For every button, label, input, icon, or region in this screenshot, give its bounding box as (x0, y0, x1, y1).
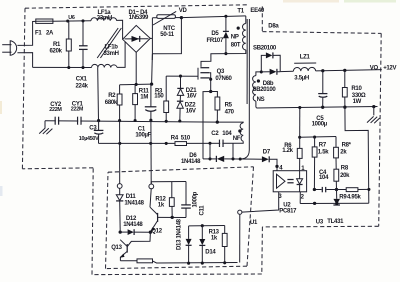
diode D6 1N4148 (215, 156, 217, 162)
svg-text:104: 104 (319, 175, 329, 181)
inductor LF1a (91, 18, 117, 21)
svg-text:1N4148: 1N4148 (181, 159, 201, 165)
svg-text:1000p: 1000p (193, 191, 199, 207)
diode D13 1N4148 (188, 226, 190, 239)
svg-text:1000µ: 1000µ (312, 122, 328, 128)
svg-text:NF: NF (233, 136, 241, 142)
shunt regulator U3 TL431 (336, 190, 338, 199)
wire bridge bottom to VD+ node row (135, 52, 137, 84)
secondary common rail (257, 107, 378, 109)
svg-text:20k: 20k (340, 173, 350, 179)
vertical C2 right to D6 line (232, 143, 234, 159)
svg-text:TL431: TL431 (327, 219, 344, 225)
wire VD rail to transformer (181, 16, 245, 18)
svg-text:1M: 1M (140, 95, 148, 101)
wire primary mid bus with CY caps (45, 121, 217, 122)
wire VD+ row (R2 R11 C1 tops) (120, 83, 152, 86)
svg-text:1N5399: 1N5399 (129, 15, 149, 21)
svg-text:C3: C3 (89, 126, 97, 132)
svg-text:T1: T1 (237, 8, 244, 14)
svg-text:PC817: PC817 (279, 209, 297, 215)
faint page-edge mark left (0, 101, 2, 114)
svg-text:10µ450V: 10µ450V (79, 136, 99, 142)
svg-text:3: 3 (278, 194, 282, 200)
svg-text:07N60: 07N60 (215, 76, 232, 82)
zener DZ2 16V (177, 100, 183, 102)
terminal circle node 2 (150, 120, 152, 184)
svg-text:Q3: Q3 (217, 69, 225, 75)
fuse F1 (36, 19, 53, 23)
resistor R4 510 (175, 142, 187, 146)
svg-text:Q13: Q13 (111, 245, 122, 251)
wire C4/R9 row (314, 189, 321, 191)
wire LF1a to bridge (117, 20, 123, 39)
svg-text:EE40: EE40 (250, 8, 264, 14)
wire D6 feedback line (203, 158, 216, 160)
svg-text:510: 510 (181, 136, 191, 142)
svg-text:104: 104 (222, 131, 232, 137)
svg-text:1W: 1W (353, 99, 362, 105)
transformer T1 primary NP (245, 16, 247, 24)
inner U1 control-block dashed box (108, 167, 254, 172)
svg-text:R1: R1 (53, 42, 61, 48)
resistor R10 330ohm 1W (344, 70, 346, 87)
resistor R8+ 2k (335, 137, 337, 148)
capacitor CY1 (77, 117, 79, 125)
zener DZ1 16V (179, 75, 182, 78)
resistor R5 470 (211, 92, 218, 98)
svg-text:680k: 680k (105, 100, 118, 106)
inductor LZ1 3.5uH (294, 62, 316, 64)
inductor LF1b (92, 64, 118, 67)
svg-text:C2: C2 (211, 131, 219, 137)
capacitor C4 104 (321, 187, 323, 192)
diode D14 (201, 226, 203, 239)
svg-text:FR107: FR107 (207, 38, 224, 44)
svg-text:U1: U1 (250, 220, 258, 226)
svg-text:16V: 16V (186, 108, 196, 114)
svg-text:1N4148: 1N4148 (123, 222, 143, 228)
transistor Q13 (120, 240, 127, 247)
svg-text:Q12: Q12 (151, 229, 162, 235)
svg-text:620k: 620k (50, 48, 63, 54)
wire VD column down to C1 top node (151, 54, 154, 84)
transformer core (246, 19, 248, 104)
svg-text:2A: 2A (46, 31, 54, 37)
terminal circle node 3 (238, 210, 242, 214)
ground secondary (373, 107, 375, 116)
capacitor C1 100uF (150, 84, 152, 107)
NTC column and loop (151, 18, 153, 54)
resistor R11 (134, 84, 136, 93)
resistor R8 20k (334, 169, 339, 181)
svg-text:U3: U3 (316, 220, 324, 226)
svg-text:D5: D5 (211, 31, 219, 37)
diode D7 (262, 156, 269, 162)
capacitor C5 1000u (322, 71, 324, 94)
svg-text:NS: NS (257, 97, 265, 103)
diode D5 FR107 (225, 16, 227, 31)
wire plug to bottom rail (17, 53, 32, 68)
wire source sense line down to D6 line (203, 92, 211, 159)
resistor R13 1k (224, 226, 226, 234)
bridge rectifier D1~D4 (123, 25, 151, 52)
wire core-side column down to D6 line (241, 104, 250, 159)
svg-text:80T: 80T (231, 43, 241, 49)
transformer feedback winding NF (240, 123, 243, 141)
svg-text:D8a: D8a (268, 23, 279, 29)
wire fuse to LF1a (53, 20, 91, 23)
svg-text:1N4148: 1N4148 (124, 201, 144, 207)
wire plug to fuse (17, 21, 36, 45)
op-amp U2 PC817 optocoupler (273, 171, 306, 192)
svg-text:SB20100: SB20100 (253, 87, 277, 93)
wire right column from R10 node down (345, 107, 369, 203)
transistor Q3 07N60 MOSFET (166, 75, 198, 77)
faint highlighted text remnants top edge (283, 0, 339, 3)
wire bottom rail down to C3 (97, 68, 100, 121)
wire primary lower bus (99, 142, 176, 144)
outer primary-side dashed border (25, 5, 248, 8)
svg-text:F1: F1 (35, 31, 42, 37)
svg-text:C11: C11 (200, 205, 206, 216)
svg-text:1k: 1k (211, 236, 218, 242)
svg-text:D13 1N4148: D13 1N4148 (177, 218, 183, 250)
svg-text:R5: R5 (225, 103, 233, 109)
svg-text:SB20100: SB20100 (253, 46, 277, 52)
svg-text:150: 150 (154, 93, 164, 99)
terminal circle node 1 (119, 121, 121, 184)
svg-text:1.2k: 1.2k (282, 148, 293, 154)
svg-text:VO: VO (370, 66, 379, 72)
svg-text:R8: R8 (341, 166, 349, 172)
diode D11 1N4148 (119, 188, 121, 194)
resistor R3 (165, 76, 167, 101)
svg-text:1k: 1k (158, 203, 165, 209)
svg-text:CX1: CX1 (76, 77, 88, 83)
svg-text:D7: D7 (263, 150, 271, 156)
wire LF1b to bridge (117, 42, 125, 68)
svg-text:NP: NP (231, 35, 239, 41)
svg-text:U2: U2 (283, 202, 291, 208)
transformer secondary NS (253, 76, 256, 102)
resistor R2 (119, 85, 121, 94)
faint page-edge mark left lower (0, 186, 3, 196)
svg-text:224k: 224k (76, 84, 89, 90)
diode D12 1N4148 (119, 230, 122, 233)
bottom bus node dots (187, 262, 190, 265)
svg-text:2k: 2k (340, 149, 347, 155)
diode D8a SB20100 (261, 55, 266, 72)
svg-text:LZ1: LZ1 (300, 55, 311, 61)
capacitor C11 1000p (185, 182, 187, 205)
resistor R6 1.2k (299, 137, 301, 148)
NF polarity dot (238, 129, 241, 132)
capacitor CY2 (54, 117, 56, 125)
svg-text:R7: R7 (319, 143, 327, 149)
svg-text:470: 470 (225, 110, 235, 116)
resistor R7 1.5k (314, 137, 316, 147)
svg-text:100µF: 100µF (135, 132, 151, 138)
svg-text:VD: VD (179, 8, 188, 14)
node C3 top (97, 119, 100, 122)
resistor R1 (68, 21, 70, 39)
svg-text:3.5µH: 3.5µH (294, 75, 309, 81)
svg-text:222M: 222M (49, 107, 62, 113)
svg-text:16V: 16V (187, 94, 197, 100)
choke core lines (97, 28, 118, 58)
ground (earth) for CY2 (44, 121, 46, 129)
resistor R14 (bottom, unlabeled) (120, 260, 137, 262)
svg-text:R4: R4 (171, 136, 179, 142)
wire D13/D14/R13 top row (189, 225, 225, 227)
svg-text:222M: 222M (71, 107, 84, 113)
capacitor C2 104 (219, 140, 221, 147)
svg-text:33mH: 33mH (97, 16, 112, 22)
svg-text:2: 2 (301, 195, 305, 201)
svg-text:U6: U6 (68, 15, 75, 21)
node VD (180, 16, 183, 19)
mid bus node dots (118, 119, 121, 122)
svg-text:R11: R11 (139, 89, 150, 95)
wire TL431 cathode row (300, 202, 369, 204)
svg-text:1.5k: 1.5k (318, 149, 329, 155)
capacitor CX1 (82, 21, 84, 46)
bottom rail wire (33, 66, 92, 68)
svg-text:R10: R10 (351, 86, 362, 92)
vertical from lower bus node to D6 line (209, 143, 211, 159)
wire common rail down to R6 and divider (299, 108, 301, 138)
svg-text:33mH: 33mH (104, 51, 119, 57)
thermistor NTC 50-11 (152, 17, 156, 19)
capacitor C3 (98, 121, 100, 131)
svg-text:4.95k: 4.95k (347, 195, 361, 201)
transistor Q12 (150, 189, 151, 207)
wire NP bottom to Q3 drain (201, 54, 226, 67)
wire to LZ1 (280, 70, 293, 72)
diode D8b SB20100 (260, 70, 263, 73)
output rail VO +12V (316, 70, 382, 71)
svg-text:R2: R2 (108, 93, 116, 99)
svg-text:LF1b: LF1b (105, 45, 119, 51)
svg-text:50-11: 50-11 (160, 32, 174, 38)
pin2 stub (299, 192, 301, 204)
svg-text:+12V: +12V (383, 65, 396, 71)
node U6 (66, 19, 69, 22)
svg-text:D11: D11 (126, 194, 137, 200)
AC plug P1 (10, 41, 16, 56)
wire bridge right vertex to NTC column (150, 37, 152, 39)
svg-text:D14: D14 (205, 250, 216, 256)
resistor R9 4.95k (337, 189, 347, 191)
resistor R12 1k (151, 182, 186, 185)
svg-text:R8*: R8* (342, 142, 352, 148)
